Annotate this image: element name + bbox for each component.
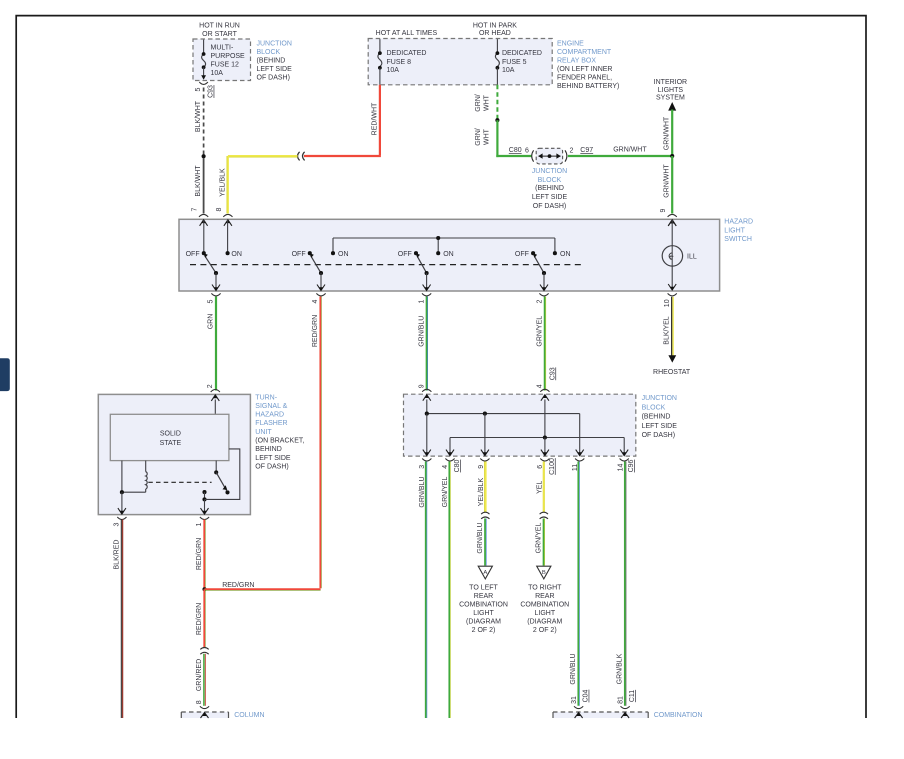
wire YEL/BLK vertical to switch pin 8 — [227, 156, 229, 214]
svg-text:OR HEAD: OR HEAD — [479, 30, 511, 37]
wire BLK/WHT dashed segment — [203, 88, 205, 155]
svg-text:HAZARD: HAZARD — [724, 218, 753, 225]
svg-text:C96: C96 — [628, 459, 635, 472]
svg-text:8: 8 — [216, 207, 223, 211]
svg-text:YEL/BLK: YEL/BLK — [219, 168, 226, 197]
relay coil L1 — [145, 461, 147, 472]
svg-text:RELAY BOX: RELAY BOX — [557, 58, 596, 65]
svg-text:(ON LEFT INNER: (ON LEFT INNER — [557, 66, 613, 73]
svg-text:COMBINATION: COMBINATION — [459, 601, 508, 608]
svg-text:ON: ON — [338, 251, 349, 258]
svg-text:GRN/WHT: GRN/WHT — [664, 164, 671, 198]
wire GRN/WHT vertical solid — [496, 120, 498, 157]
svg-text:9: 9 — [478, 465, 485, 469]
svg-text:DEDICATED: DEDICATED — [387, 50, 427, 57]
svg-text:GRN/YEL: GRN/YEL — [442, 477, 449, 508]
wire GRN/WHT down to switch pin 9 — [671, 156, 673, 214]
blue side tab — [0, 358, 10, 391]
junction block pin 4 entry — [540, 389, 549, 392]
svg-text:5: 5 — [208, 299, 215, 303]
lamp ILL wiring — [668, 220, 676, 226]
svg-text:FUSE 8: FUSE 8 — [387, 59, 412, 66]
svg-text:MULTI-: MULTI- — [211, 44, 234, 51]
node flasher pin3 junction — [120, 490, 124, 494]
svg-text:BEHIND: BEHIND — [255, 446, 281, 453]
svg-text:WHT: WHT — [484, 94, 491, 111]
svg-text:2: 2 — [570, 147, 574, 154]
inline junction block connector symbol — [532, 150, 534, 161]
svg-text:LEFT SIDE: LEFT SIDE — [642, 423, 678, 430]
svg-text:WHT: WHT — [484, 128, 491, 145]
svg-text:OF DASH): OF DASH) — [255, 463, 288, 470]
svg-text:YEL/BLK: YEL/BLK — [478, 477, 485, 506]
combination meter connector box (clipped) — [574, 706, 583, 708]
svg-text:C93: C93 — [208, 85, 215, 98]
engine compartment relay box (dashed) — [368, 39, 552, 85]
svg-text:OR START: OR START — [202, 31, 237, 38]
svg-text:BLK/WHT: BLK/WHT — [195, 100, 202, 132]
wire solid-state left output — [121, 461, 123, 493]
svg-text:6: 6 — [525, 147, 529, 154]
switch pole S4 — [534, 256, 544, 273]
svg-text:OFF: OFF — [186, 251, 200, 258]
svg-text:GRN/BLU: GRN/BLU — [477, 522, 484, 553]
node on GRN/WHT wire — [495, 118, 499, 122]
svg-text:GRN/RED: GRN/RED — [196, 659, 203, 691]
junction block upper bus — [426, 400, 428, 414]
wire BLK/WHT solid to switch pin 7 — [203, 158, 205, 214]
wire to flasher pin 3 exit — [121, 492, 123, 514]
svg-text:LEFT SIDE: LEFT SIDE — [257, 66, 293, 73]
svg-text:GRN/BLK: GRN/BLK — [617, 653, 624, 684]
svg-text:OF DASH): OF DASH) — [533, 203, 566, 210]
svg-text:2: 2 — [536, 299, 543, 303]
svg-text:FUSE 12: FUSE 12 — [211, 61, 240, 68]
wire solid-state right loop — [205, 449, 240, 500]
svg-text:LIGHT: LIGHT — [724, 227, 745, 234]
wire GRN/RED to column — [203, 654, 205, 706]
svg-text:LIGHT: LIGHT — [534, 610, 555, 617]
wire to flasher pin 1 exit — [204, 499, 206, 513]
svg-text:(ON BRACKET,: (ON BRACKET, — [255, 438, 304, 445]
svg-text:31: 31 — [571, 696, 578, 704]
svg-text:81: 81 — [618, 696, 625, 704]
svg-text:(DIAGRAM: (DIAGRAM — [527, 618, 562, 625]
relay contact arm — [215, 461, 217, 473]
svg-text:(BEHIND: (BEHIND — [257, 57, 286, 64]
svg-text:HAZARD: HAZARD — [255, 412, 284, 419]
svg-text:RED/WHT: RED/WHT — [371, 102, 378, 135]
svg-text:SIGNAL &: SIGNAL & — [255, 403, 287, 410]
svg-text:BLOCK: BLOCK — [642, 405, 666, 412]
destination triangle B — [537, 566, 551, 579]
svg-text:COMBINATION: COMBINATION — [654, 712, 703, 719]
svg-text:HOT IN RUN: HOT IN RUN — [199, 23, 240, 30]
wire GRN/WHT dashed segment — [496, 85, 498, 119]
wire GRN/YEL to right rear light — [543, 519, 545, 566]
svg-text:RED/GRN: RED/GRN — [312, 315, 319, 347]
svg-text:10A: 10A — [211, 70, 224, 77]
svg-text:LIGHT: LIGHT — [473, 610, 494, 617]
svg-text:DEDICATED: DEDICATED — [502, 50, 542, 57]
wire RED/GRN from flasher pin 1 — [203, 520, 205, 589]
relay mechanical dashed link — [148, 481, 211, 483]
solid state inner box U1 — [110, 414, 229, 460]
junction block exit at x=484.9 — [481, 450, 489, 456]
svg-text:RED/GRN: RED/GRN — [196, 538, 203, 570]
inline connector RED/GRN to GRN/RED — [200, 648, 208, 650]
lamp ILL bulb — [662, 246, 682, 266]
wire YEL JB out — [543, 462, 545, 513]
svg-text:ENGINE: ENGINE — [557, 41, 584, 48]
wire RED/GRN below junction — [203, 589, 205, 648]
wire YEL/BLK JB out — [485, 462, 487, 513]
wire GRN switch to flasher — [215, 297, 217, 391]
wire GRN/WHT horizontal left of junction connector — [496, 155, 531, 157]
fuse F8 DEDICATED FUSE 8 10A — [379, 39, 381, 53]
switch pole S1 — [203, 220, 205, 253]
wire RED/WHT vertical — [379, 85, 381, 155]
svg-text:JUNCTION: JUNCTION — [257, 40, 292, 47]
svg-text:4: 4 — [442, 465, 449, 469]
wire GRN/BLK JB to combination — [624, 462, 626, 706]
switch pin 10 exit arc — [668, 293, 677, 296]
wire GRN/WHT horizontal right of connector — [568, 155, 673, 157]
svg-text:SYSTEM: SYSTEM — [656, 95, 685, 102]
svg-text:RHEOSTAT: RHEOSTAT — [653, 369, 691, 376]
flasher unit box — [98, 394, 250, 514]
svg-text:C97: C97 — [580, 147, 593, 154]
junction block exit at x=450.0 — [446, 450, 454, 456]
svg-text:HOT AT ALL TIMES: HOT AT ALL TIMES — [376, 30, 438, 37]
svg-text:REAR: REAR — [474, 593, 493, 600]
svg-text:JUNCTION: JUNCTION — [642, 395, 677, 402]
svg-text:BLK/YEL: BLK/YEL — [664, 316, 671, 345]
svg-text:GRN/BLU: GRN/BLU — [570, 653, 577, 684]
wire GRN/YEL JB to bottom — [448, 462, 450, 719]
relay fixed contact — [202, 490, 206, 494]
svg-text:YEL: YEL — [537, 481, 544, 494]
svg-text:LEFT SIDE: LEFT SIDE — [255, 455, 291, 462]
svg-text:RED/GRN: RED/GRN — [222, 582, 254, 589]
svg-text:TO LEFT: TO LEFT — [469, 584, 498, 591]
svg-text:PURPOSE: PURPOSE — [211, 53, 246, 60]
svg-text:2 OF 2): 2 OF 2) — [533, 627, 557, 634]
arrow to rheostat — [668, 355, 676, 362]
svg-text:(DIAGRAM: (DIAGRAM — [466, 618, 501, 625]
svg-text:BLK/WHT: BLK/WHT — [195, 165, 202, 197]
svg-text:10A: 10A — [502, 67, 515, 74]
node RED/GRN junction — [202, 587, 206, 591]
svg-text:TO RIGHT: TO RIGHT — [528, 584, 562, 591]
connector C93 arc below fuse box — [199, 82, 208, 84]
svg-text:GRN/BLU: GRN/BLU — [419, 476, 426, 507]
svg-text:OF DASH): OF DASH) — [257, 75, 290, 82]
switch pole S3 — [417, 256, 426, 273]
svg-text:7: 7 — [192, 207, 199, 211]
wire GRN/BLU JB to combination — [577, 462, 579, 706]
junction block fuse box (dashed) — [193, 39, 251, 81]
svg-text:SWITCH: SWITCH — [724, 236, 752, 243]
svg-text:ON: ON — [443, 251, 454, 258]
svg-text:COMPARTMENT: COMPARTMENT — [557, 49, 612, 56]
svg-text:FUSE 5: FUSE 5 — [502, 59, 527, 66]
svg-text:BLK/RED: BLK/RED — [113, 540, 120, 570]
flasher pin 1 exit — [201, 508, 209, 514]
svg-text:HOT IN PARK: HOT IN PARK — [473, 23, 517, 30]
svg-text:9: 9 — [418, 384, 425, 388]
svg-text:JUNCTION: JUNCTION — [532, 168, 567, 175]
svg-text:4: 4 — [536, 384, 543, 388]
svg-text:OF DASH): OF DASH) — [642, 432, 675, 439]
svg-text:OFF: OFF — [292, 251, 306, 258]
svg-text:SOLID: SOLID — [160, 430, 181, 437]
svg-text:BEHIND BATTERY): BEHIND BATTERY) — [557, 83, 619, 90]
inline connector YEL/BLK to GRN/BLU — [481, 512, 489, 514]
column switch connector box (clipped) — [200, 706, 209, 708]
destination triangle A — [478, 566, 492, 579]
svg-text:2 OF 2): 2 OF 2) — [472, 627, 496, 634]
svg-text:2: 2 — [207, 384, 214, 388]
svg-text:FENDER PANEL,: FENDER PANEL, — [557, 74, 612, 81]
svg-text:BLOCK: BLOCK — [538, 177, 562, 184]
svg-text:10: 10 — [664, 299, 671, 307]
svg-text:B: B — [542, 570, 546, 576]
inline connector arcs on YEL-RED wire — [298, 152, 300, 161]
flasher pin 3 exit — [118, 508, 126, 514]
wire GRN/BLU to left rear light — [484, 519, 486, 566]
wire GRN/YEL switch to junction block — [544, 297, 546, 391]
svg-text:1: 1 — [196, 522, 203, 526]
node on BLK/WHT wire — [202, 154, 206, 158]
svg-text:STATE: STATE — [160, 440, 182, 447]
junction block exit at x=544.9 — [541, 450, 549, 456]
node GRN/WHT tee — [670, 154, 674, 158]
svg-text:(BEHIND: (BEHIND — [535, 185, 564, 192]
svg-text:ON: ON — [231, 251, 242, 258]
wire GRN/BLU JB to bottom — [425, 462, 427, 719]
junction block exit at x=624.2 — [620, 450, 628, 456]
wire BLK/RED to bottom — [120, 520, 122, 719]
svg-text:RED/GRN: RED/GRN — [196, 603, 203, 635]
svg-text:REAR: REAR — [535, 593, 554, 600]
svg-text:GRN/YEL: GRN/YEL — [536, 316, 543, 347]
svg-text:10A: 10A — [387, 67, 400, 74]
junction block lower bus — [544, 400, 546, 438]
svg-text:COMBINATION: COMBINATION — [520, 601, 569, 608]
svg-text:A: A — [483, 570, 487, 576]
svg-text:GRN/WHT: GRN/WHT — [664, 116, 671, 150]
svg-text:OFF: OFF — [515, 251, 529, 258]
wire BLK/YEL to rheostat — [671, 297, 673, 356]
switch ON bus wire — [333, 237, 555, 239]
svg-text:ILL: ILL — [687, 253, 697, 260]
svg-text:GRN/WHT: GRN/WHT — [613, 147, 647, 154]
svg-text:(BEHIND: (BEHIND — [642, 414, 671, 421]
wire RED/GRN horizontal link — [205, 588, 321, 590]
svg-text:C80: C80 — [509, 147, 522, 154]
svg-text:OFF: OFF — [398, 251, 412, 258]
wire GRN/BLU switch to junction block — [426, 297, 428, 391]
svg-text:BLOCK: BLOCK — [257, 49, 281, 56]
wire YEL/BLK horizontal — [228, 155, 298, 157]
wire pin2 to solid state unit — [214, 400, 216, 415]
switch pin 7 entry — [199, 214, 208, 217]
svg-text:C80: C80 — [454, 459, 461, 472]
svg-text:GRN/BLU: GRN/BLU — [418, 316, 425, 347]
switch mechanical dashed link — [190, 264, 582, 266]
svg-text:1: 1 — [418, 299, 425, 303]
junction block box (dashed) — [404, 394, 636, 456]
junction block internal drops — [426, 414, 428, 455]
fuse F5 DEDICATED FUSE 5 10A — [496, 39, 498, 53]
junction block exit at x=426.8 — [423, 450, 431, 456]
svg-text:C04: C04 — [583, 689, 590, 702]
junction block exit at x=579.7 — [576, 450, 584, 456]
svg-text:GRN/: GRN/ — [475, 128, 482, 146]
fuse F12 MULTI-PURPOSE FUSE 12 10A — [203, 40, 205, 54]
flasher pin 2 entry — [211, 390, 220, 393]
svg-text:3: 3 — [113, 522, 120, 526]
svg-text:14: 14 — [617, 464, 624, 472]
arrow to interior lights system — [668, 102, 676, 111]
svg-text:TURN-: TURN- — [255, 394, 277, 401]
svg-text:C11: C11 — [629, 690, 636, 702]
hazard light switch box — [179, 219, 720, 291]
switch pin 9 entry — [668, 214, 677, 217]
wire RED/GRN switch pin 4 long vertical — [319, 297, 321, 589]
svg-text:C100: C100 — [549, 458, 556, 475]
svg-text:LIGHTS: LIGHTS — [658, 87, 684, 94]
svg-text:5: 5 — [195, 87, 202, 91]
switch pin 8 entry — [223, 214, 232, 217]
inline connector YEL to GRN/YEL — [540, 512, 548, 514]
switch pole S2 — [311, 256, 321, 273]
svg-text:GRN/: GRN/ — [475, 94, 482, 112]
svg-text:FLASHER: FLASHER — [255, 420, 287, 427]
svg-text:ON: ON — [560, 251, 571, 258]
svg-text:COLUMN: COLUMN — [234, 712, 264, 719]
svg-text:9: 9 — [660, 208, 667, 212]
svg-text:LEFT SIDE: LEFT SIDE — [532, 194, 568, 201]
svg-text:8: 8 — [196, 700, 203, 704]
svg-text:GRN: GRN — [208, 314, 215, 330]
svg-text:INTERIOR: INTERIOR — [654, 79, 687, 86]
svg-text:4: 4 — [312, 299, 319, 303]
svg-text:UNIT: UNIT — [255, 429, 272, 436]
svg-text:C93: C93 — [549, 367, 556, 380]
wire RED/WHT horizontal to connector — [304, 155, 381, 157]
junction block pin 9 entry — [422, 389, 431, 392]
wire GRN/WHT up to interior lights — [671, 110, 673, 156]
svg-text:GRN/YEL: GRN/YEL — [535, 523, 542, 554]
